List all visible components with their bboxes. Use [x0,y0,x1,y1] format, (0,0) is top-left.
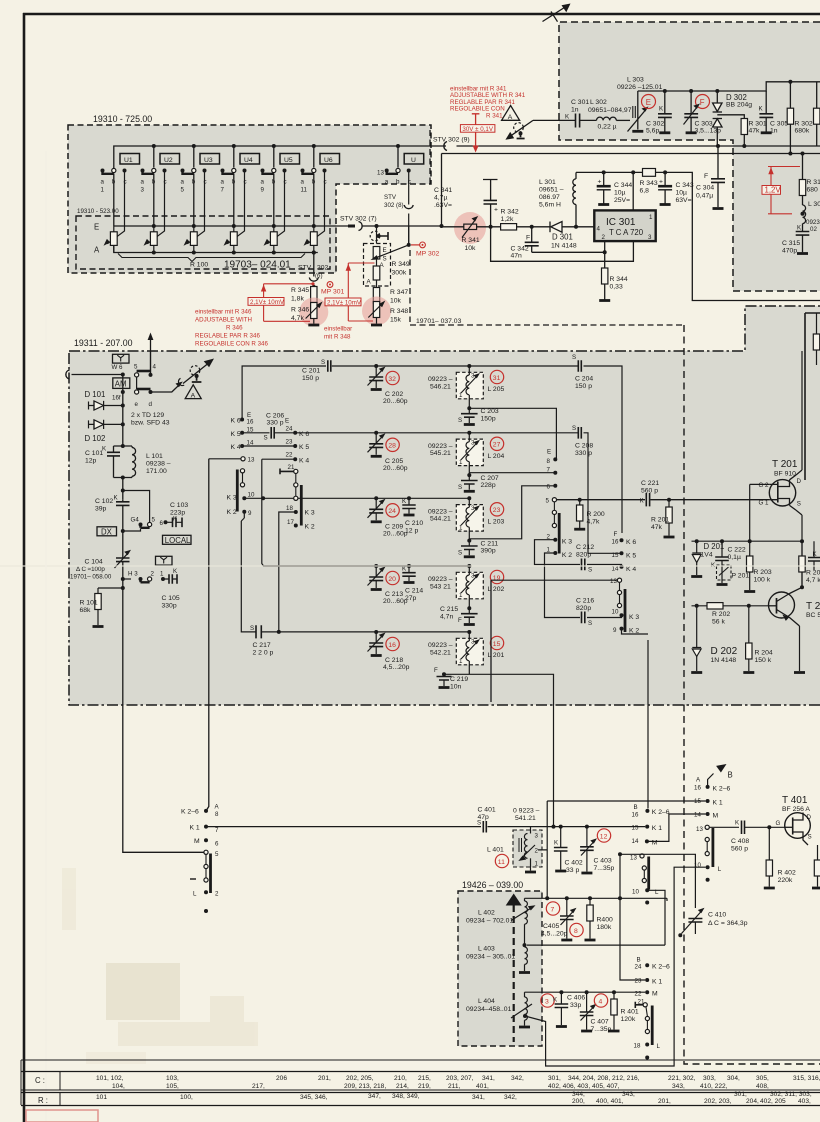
wire wiper from contact c of U2 [147,171,164,244]
svg-text:10µ: 10µ [676,190,688,197]
svg-text:09234–458..01: 09234–458..01 [466,1006,512,1013]
svg-text:C 205: C 205 [385,458,403,465]
capacitor C305 [765,91,767,132]
wire top bus (30V rail W1) [114,146,820,169]
svg-text:3: 3 [471,639,475,646]
svg-text:6: 6 [215,841,219,848]
trimmer C410 [688,919,702,923]
svg-text:K 3: K 3 [562,539,572,546]
svg-text:+: + [659,179,663,186]
svg-text:E: E [285,418,289,425]
svg-text:680k: 680k [795,128,810,135]
svg-text:1V4: 1V4 [701,552,713,559]
wire E-bus [114,225,336,227]
contact 21 [280,469,294,475]
svg-text:G4: G4 [131,517,140,524]
potentiometer R100 element 4 [224,226,238,253]
junction W2/W3 [440,224,444,228]
svg-text:U: U [411,157,416,164]
svg-text:F: F [458,617,462,624]
svg-text:0,33: 0,33 [610,284,623,291]
svg-text:LOCAL: LOCAL [165,536,191,545]
svg-text:S: S [588,620,592,627]
svg-text:15k: 15k [390,317,402,324]
svg-text:10: 10 [694,862,701,869]
oscillator shield box right edge [805,313,820,480]
inductor L401 [530,827,532,834]
svg-text:103,: 103, [166,1075,179,1082]
red value box 2,1V+-10mV (right) [325,298,361,306]
resistor R101 [121,586,125,590]
svg-text:315, 316,: 315, 316, [793,1075,820,1082]
frame top border [23,13,820,16]
wire L205 secondary to contact 8 [469,408,557,459]
svg-text:2 2 0 p: 2 2 0 p [253,650,274,657]
svg-text:P 201: P 201 [732,573,750,580]
svg-text:680: 680 [807,187,819,194]
svg-text:10k: 10k [390,298,402,305]
svg-text:S: S [797,500,801,507]
svg-text:einstellbar mit R 346: einstellbar mit R 346 [195,309,252,316]
red measurement bracket R346 [264,284,313,322]
svg-text:F: F [704,173,708,180]
wire wiper from contact c of U4 [227,171,244,244]
wire osc to C410 [620,854,695,908]
contact 13 [209,458,241,460]
svg-text:R 347: R 347 [390,289,408,296]
svg-text:K 3: K 3 [227,495,237,502]
potentiometer R100 element 6 [304,226,318,253]
svg-text:12: 12 [600,833,608,840]
red index circle 28 [386,438,399,451]
resistor R342 [501,224,517,230]
svg-text:302 (8): 302 (8) [384,202,404,209]
svg-text:14: 14 [632,838,639,845]
svg-text:G 1: G 1 [759,500,770,507]
antenna switch blade [510,120,534,136]
trimmer box R349 [364,244,391,287]
svg-text:b: b [192,179,196,186]
AM antenna socket glyph [190,366,200,376]
svg-text:B: B [634,804,638,811]
svg-text:6: 6 [160,520,164,527]
red value box 1,2V [762,186,781,195]
svg-text:5: 5 [181,187,185,194]
junction E-bus / A-bus U2 [152,224,156,228]
svg-text:09239: 09239 [806,219,820,226]
highlight circle R346 [299,298,328,327]
svg-text:C 203: C 203 [481,408,499,415]
svg-text:15: 15 [632,825,639,832]
svg-text:K 1: K 1 [190,825,200,832]
svg-text:A: A [696,777,701,784]
wire main oscillator line [206,826,645,828]
svg-text:7: 7 [215,827,219,834]
resistor R400 [588,896,592,900]
wire contact 2 to C212 [535,540,622,567]
diode unit U (7th) [404,154,424,165]
svg-text:A: A [191,392,196,399]
svg-text:10: 10 [612,609,619,616]
svg-text:(6): (6) [315,273,323,280]
svg-text:217,: 217, [252,1083,265,1090]
svg-text:D 201: D 201 [704,542,725,551]
wire T202 emitter to ground [799,626,801,671]
svg-text:B: B [728,771,733,780]
svg-text:219,: 219, [418,1083,431,1090]
isolated dot below [204,909,208,913]
svg-text:1,8k: 1,8k [291,296,304,303]
svg-text:09223 –: 09223 – [428,576,453,583]
svg-text:09234 – 702.01: 09234 – 702.01 [466,918,513,925]
svg-text:19701– 037.03: 19701– 037.03 [416,318,462,325]
partition dashed line mixer section [684,325,820,1064]
table bottom rule [21,1105,820,1107]
svg-text:L 205: L 205 [488,386,505,393]
svg-text:K 6: K 6 [299,431,309,438]
wire row2 to C208 [295,433,619,554]
connector STV302(9) arc [444,142,447,151]
capacitor C222 [721,541,723,583]
svg-text:10k: 10k [465,245,477,252]
svg-text:C 218: C 218 [385,657,403,664]
svg-text:K 2: K 2 [562,552,572,559]
svg-text:13: 13 [610,578,617,585]
svg-text:K 3: K 3 [629,614,639,621]
resistor R204 [748,606,750,671]
test point MP302 [411,244,420,246]
svg-text:C 301: C 301 [571,99,589,106]
red pointer line to rail [472,114,480,148]
svg-text:W 6: W 6 [112,364,124,371]
svg-text:C 202: C 202 [385,391,403,398]
AM antenna arrow [183,363,209,384]
svg-text:546.21: 546.21 [430,383,451,390]
svg-text:201,: 201, [318,1075,331,1082]
oscillator shield box parts [816,313,818,365]
svg-text:560 p: 560 p [731,846,748,853]
svg-text:820p: 820p [576,552,591,559]
svg-text:15: 15 [493,641,501,648]
svg-text:8: 8 [215,811,219,818]
svg-text:5: 5 [152,517,156,524]
wire L401 tap to K1 bus [538,801,706,898]
capacitor C204 [578,360,581,372]
svg-text:R 349: R 349 [392,261,410,268]
resistor R200 [578,498,582,502]
svg-text:C 304: C 304 [696,185,714,192]
wire W3 main rail y=226 [336,225,442,227]
svg-text:R 201: R 201 [651,517,669,524]
svg-text:E: E [547,449,551,456]
svg-text:K 5: K 5 [299,444,309,451]
diode unit U1 [120,154,140,165]
svg-text:200,: 200, [572,1098,585,1105]
svg-text:R 203: R 203 [754,569,772,576]
svg-text:403,: 403, [798,1098,811,1105]
svg-text:300k: 300k [392,270,407,277]
svg-text:L 402: L 402 [478,910,495,917]
svg-text:10: 10 [632,889,639,896]
module panel 19426-039.00 fill [458,891,542,1046]
switch H3 [121,577,125,581]
svg-text:4,5...20p: 4,5...20p [541,931,568,938]
svg-text:C 207: C 207 [481,475,499,482]
capacitor C301 [576,114,580,128]
svg-text:C 344: C 344 [614,182,632,189]
wire IC pin1 riser [632,172,634,210]
svg-text:R :: R : [38,1096,48,1105]
svg-text:A: A [215,804,220,811]
module panel FM front-end fill [559,22,820,291]
test point MP301 [327,282,333,288]
svg-text:C 204: C 204 [575,376,593,383]
svg-text:C 401: C 401 [478,807,496,814]
highlight circle R348 [362,297,391,326]
test-point glyph above R349 [370,226,388,244]
table label dividers [59,1072,61,1106]
wire A-bus to STV302(6) [313,253,315,288]
wire IC pin2 drop [604,241,606,268]
switch contact a/b of U6 [301,168,327,193]
svg-text:C 305: C 305 [770,121,788,128]
svg-text:ADJUSTABLE WITH: ADJUSTABLE WITH [195,317,252,324]
svg-text:47k: 47k [651,524,663,531]
wire AGC row [692,540,803,542]
svg-text:C 403: C 403 [594,858,612,865]
svg-text:a: a [385,179,389,186]
svg-text:L 204: L 204 [488,453,505,460]
svg-text:C 402: C 402 [565,860,583,867]
svg-text:330p: 330p [162,603,177,610]
svg-text:C 206: C 206 [266,413,284,420]
svg-text:S: S [808,834,812,841]
potentiometer R100 element 1 [104,226,118,253]
svg-text:L 401: L 401 [487,847,504,854]
highlight circle R341 [454,212,486,244]
L401 shield fill [513,830,542,867]
svg-text:C 101: C 101 [85,450,103,457]
capacitor C217 [256,625,261,638]
svg-text:L 303: L 303 [627,77,644,84]
svg-text:BB 204g: BB 204g [726,102,752,109]
svg-text:09651 –: 09651 – [539,187,564,194]
potentiometer R346 [306,302,323,319]
svg-text:1: 1 [535,861,539,868]
svg-text:U4: U4 [244,157,253,164]
svg-text:19701– 058.00: 19701– 058.00 [70,574,112,581]
svg-text:16: 16 [612,539,619,546]
svg-text:4,7k: 4,7k [587,519,600,526]
wire W2 drop [442,154,820,227]
svg-text:S: S [250,625,254,632]
svg-text:214,: 214, [396,1083,409,1090]
svg-text:C 342: C 342 [511,246,529,253]
svg-text:1n: 1n [770,128,778,135]
svg-text:33p: 33p [570,1002,582,1009]
svg-text:820p: 820p [576,605,591,612]
svg-text:1: 1 [459,459,463,466]
svg-text:Δ C ≈100p: Δ C ≈100p [76,566,105,573]
table left edge [20,1060,22,1105]
svg-text:4,5...20p: 4,5...20p [383,664,410,671]
svg-text:L 30: L 30 [808,201,820,208]
svg-text:105,: 105, [166,1083,179,1090]
junction R349 tap [375,224,379,228]
potentiometer R349 [373,247,380,288]
svg-text:16f: 16f [112,395,121,402]
svg-text:K 3: K 3 [305,510,315,517]
svg-text:BF 256 A: BF 256 A [782,806,810,813]
svg-text:T 401: T 401 [782,795,808,806]
svg-text:einstellbar: einstellbar [324,326,352,333]
wire C342 return to pin2 [532,251,605,253]
resistor R311 [799,180,805,196]
red index circle 20 [386,571,399,584]
red index circle 12 [597,829,610,842]
svg-text:9: 9 [261,187,265,194]
svg-text:M: M [713,813,719,820]
red value box 2,1V+-10mV (left) [248,298,284,306]
svg-text:24: 24 [635,964,642,971]
svg-text:23: 23 [286,439,293,446]
svg-text:12p: 12p [85,458,97,465]
svg-text:R 348: R 348 [390,308,408,315]
svg-text:202, 203,: 202, 203, [704,1098,732,1105]
svg-text:7: 7 [221,187,225,194]
svg-text:3: 3 [471,373,475,380]
svg-text:2,1V± 10mV: 2,1V± 10mV [250,299,285,306]
svg-text:G: G [776,820,781,827]
capacitor C 215 [467,606,471,610]
resistor R302 [788,80,792,84]
svg-text:401,: 401, [476,1083,489,1090]
svg-text:18: 18 [286,505,293,512]
svg-text:0,1µ: 0,1µ [728,554,741,561]
svg-text:L: L [718,866,722,873]
L401 shield border [513,830,542,867]
svg-text:R 200: R 200 [587,511,605,518]
svg-text:S: S [572,354,576,361]
AM box label [113,378,130,389]
svg-text:11: 11 [498,859,505,866]
red index circle 31 [490,370,503,383]
svg-text:6: 6 [547,484,551,491]
diode unit U6 [320,154,340,165]
capacitor C315 [802,230,804,252]
svg-text:C 201: C 201 [302,368,320,375]
contact column A : B/16/K2-6 [647,640,649,809]
svg-text:402, 406, 403, 405, 407,: 402, 406, 403, 405, 407, [548,1083,620,1090]
svg-text:3: 3 [141,187,145,194]
diode D101 [121,404,125,408]
svg-text:16: 16 [388,642,396,649]
band switch column 1 [240,469,244,473]
svg-text:120k: 120k [621,1016,636,1023]
svg-text:D 301: D 301 [552,233,573,242]
svg-text:K: K [553,997,558,1004]
svg-text:b: b [272,179,276,186]
svg-text:19426 – 039.00: 19426 – 039.00 [462,880,523,890]
parts table [21,1060,820,1106]
ground under R348 [371,324,382,326]
svg-text:R 101: R 101 [80,600,98,607]
svg-text:10: 10 [248,492,255,499]
module border 19426-039.00 [458,891,542,1046]
contact 24/K6 [293,431,297,435]
capacitor C216 [582,612,585,624]
wire 13 to C408 [710,826,740,828]
inductor L301 [574,225,578,229]
svg-text:33 p: 33 p [566,867,579,874]
svg-text:R 344: R 344 [610,276,628,283]
svg-text:341,: 341, [482,1075,495,1082]
svg-text:086.97: 086.97 [539,194,560,201]
svg-text:09223 –: 09223 – [428,443,453,450]
frame left border [23,13,26,1122]
svg-text:K 2–6: K 2–6 [713,786,731,793]
brace for R100 [118,254,305,262]
svg-text:204,: 204, [746,1098,759,1105]
svg-text:STV: STV [298,265,312,272]
svg-text:10µ: 10µ [614,190,626,197]
svg-text:3: 3 [471,573,475,580]
red index circle 4 [594,994,607,1007]
svg-text:R 402: R 402 [778,870,796,877]
svg-text:C 303: C 303 [695,121,713,128]
svg-text:302: 302 [317,265,329,272]
svg-text:2,1V± 10mV: 2,1V± 10mV [327,300,362,307]
trimmer C 218 [368,632,384,654]
svg-text:U2: U2 [164,157,173,164]
svg-text:C405: C405 [543,923,559,930]
svg-text:C 221: C 221 [641,480,659,487]
wire drain rail [796,351,802,475]
junction dots on top bus [152,144,156,148]
svg-text:22: 22 [635,991,642,998]
svg-text:A: A [94,246,100,255]
switch contact a/b of U2 [141,168,167,193]
contact 22/K4 [262,458,295,460]
IC U301 TCA720 [594,210,655,241]
table top rule [21,1059,820,1061]
svg-text:3: 3 [535,833,539,840]
wire L404 row [525,991,646,993]
junction R345 top [312,285,316,289]
svg-text:301,: 301, [734,1091,747,1098]
svg-text:C 216: C 216 [576,598,594,605]
svg-text:S: S [458,417,462,424]
red measurement bracket R348 [348,263,374,321]
svg-text:A: A [380,262,385,269]
svg-text:L 101: L 101 [146,453,163,460]
svg-text:F: F [614,531,618,538]
wire L204 secondary to contact 7 [469,472,555,474]
svg-text:344,: 344, [572,1091,585,1098]
svg-text:545.21: 545.21 [430,450,451,457]
svg-text:IC 301: IC 301 [606,217,636,228]
svg-text:b: b [112,179,116,186]
svg-text:330 p: 330 p [575,450,592,457]
svg-text:8: 8 [547,458,551,465]
diode unit U4 [240,154,260,165]
svg-text:S: S [264,435,268,442]
svg-text:47p: 47p [478,814,490,821]
svg-text:400, 401,: 400, 401, [596,1098,624,1105]
connector STV302(8) arc [404,205,413,209]
red index circle 27 [490,437,503,450]
svg-text:1: 1 [160,571,164,578]
